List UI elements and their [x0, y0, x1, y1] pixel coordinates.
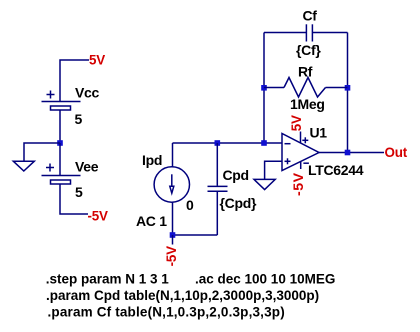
- wire: [172, 235, 174, 245]
- svg-text:1Meg: 1Meg: [290, 96, 325, 112]
- svg-text:Rf: Rf: [298, 63, 313, 79]
- svg-text:.param Cpd table(N,1,10p,2,300: .param Cpd table(N,1,10p,2,3000p,3,3000p…: [46, 288, 319, 303]
- current source Ipd: [154, 143, 189, 235]
- node junction: [261, 85, 267, 91]
- wire: [60, 184, 88, 214]
- wire: [263, 33, 265, 144]
- wire output: [319, 152, 384, 154]
- svg-text:{Cpd}: {Cpd}: [220, 195, 257, 211]
- svg-text:AC 1: AC 1: [136, 213, 167, 229]
- svg-text:5V: 5V: [289, 115, 304, 131]
- op-amp U1: [282, 132, 319, 171]
- voltage source V2 Vee battery symbol: [42, 164, 81, 185]
- wire non-inverting input to ground: [265, 161, 282, 179]
- node junction: [57, 140, 63, 146]
- svg-text:-5V: -5V: [291, 172, 307, 196]
- wire: [59, 110, 61, 143]
- svg-text:5: 5: [75, 111, 83, 127]
- svg-text:.param Cf table(N,1,0.3p,2,0.3: .param Cf table(N,1,0.3p,2,0.3p,3,3p): [48, 305, 285, 320]
- svg-text:Cf: Cf: [303, 8, 318, 24]
- svg-text:{Cf}: {Cf}: [296, 42, 321, 58]
- svg-text:.ac dec 100 10 10MEG: .ac dec 100 10 10MEG: [195, 272, 335, 287]
- svg-text:.step param N 1 3 1: .step param N 1 3 1: [46, 272, 170, 287]
- node junction: [170, 232, 176, 238]
- capacitor Cpd: [208, 143, 228, 235]
- svg-text:Vcc: Vcc: [75, 85, 100, 101]
- wire: [24, 143, 60, 161]
- node junction: [215, 140, 221, 146]
- node junction: [345, 150, 351, 156]
- node junction: [261, 140, 267, 146]
- voltage source V1 Vcc battery symbol: [42, 91, 81, 111]
- capacitor Cf: [264, 24, 348, 41]
- wire: [347, 33, 349, 153]
- svg-text:U1: U1: [310, 124, 328, 140]
- svg-text:Vee: Vee: [75, 159, 99, 175]
- resistor Rf: [264, 78, 348, 98]
- wire: [59, 143, 61, 176]
- svg-text:Out: Out: [385, 145, 408, 160]
- svg-text:Ipd: Ipd: [142, 152, 162, 168]
- wire: [60, 60, 89, 102]
- node junction: [345, 85, 351, 91]
- svg-text:-5V: -5V: [164, 246, 179, 267]
- svg-text:LTC6244: LTC6244: [308, 162, 364, 178]
- wire: [173, 234, 218, 236]
- ground: [13, 161, 34, 171]
- ground: [254, 179, 275, 189]
- svg-text:-5V: -5V: [88, 208, 109, 223]
- svg-text:5: 5: [75, 184, 83, 200]
- wire: [173, 142, 283, 144]
- svg-text:Cpd: Cpd: [223, 167, 249, 183]
- svg-text:5V: 5V: [89, 53, 105, 68]
- svg-text:0: 0: [186, 197, 194, 213]
